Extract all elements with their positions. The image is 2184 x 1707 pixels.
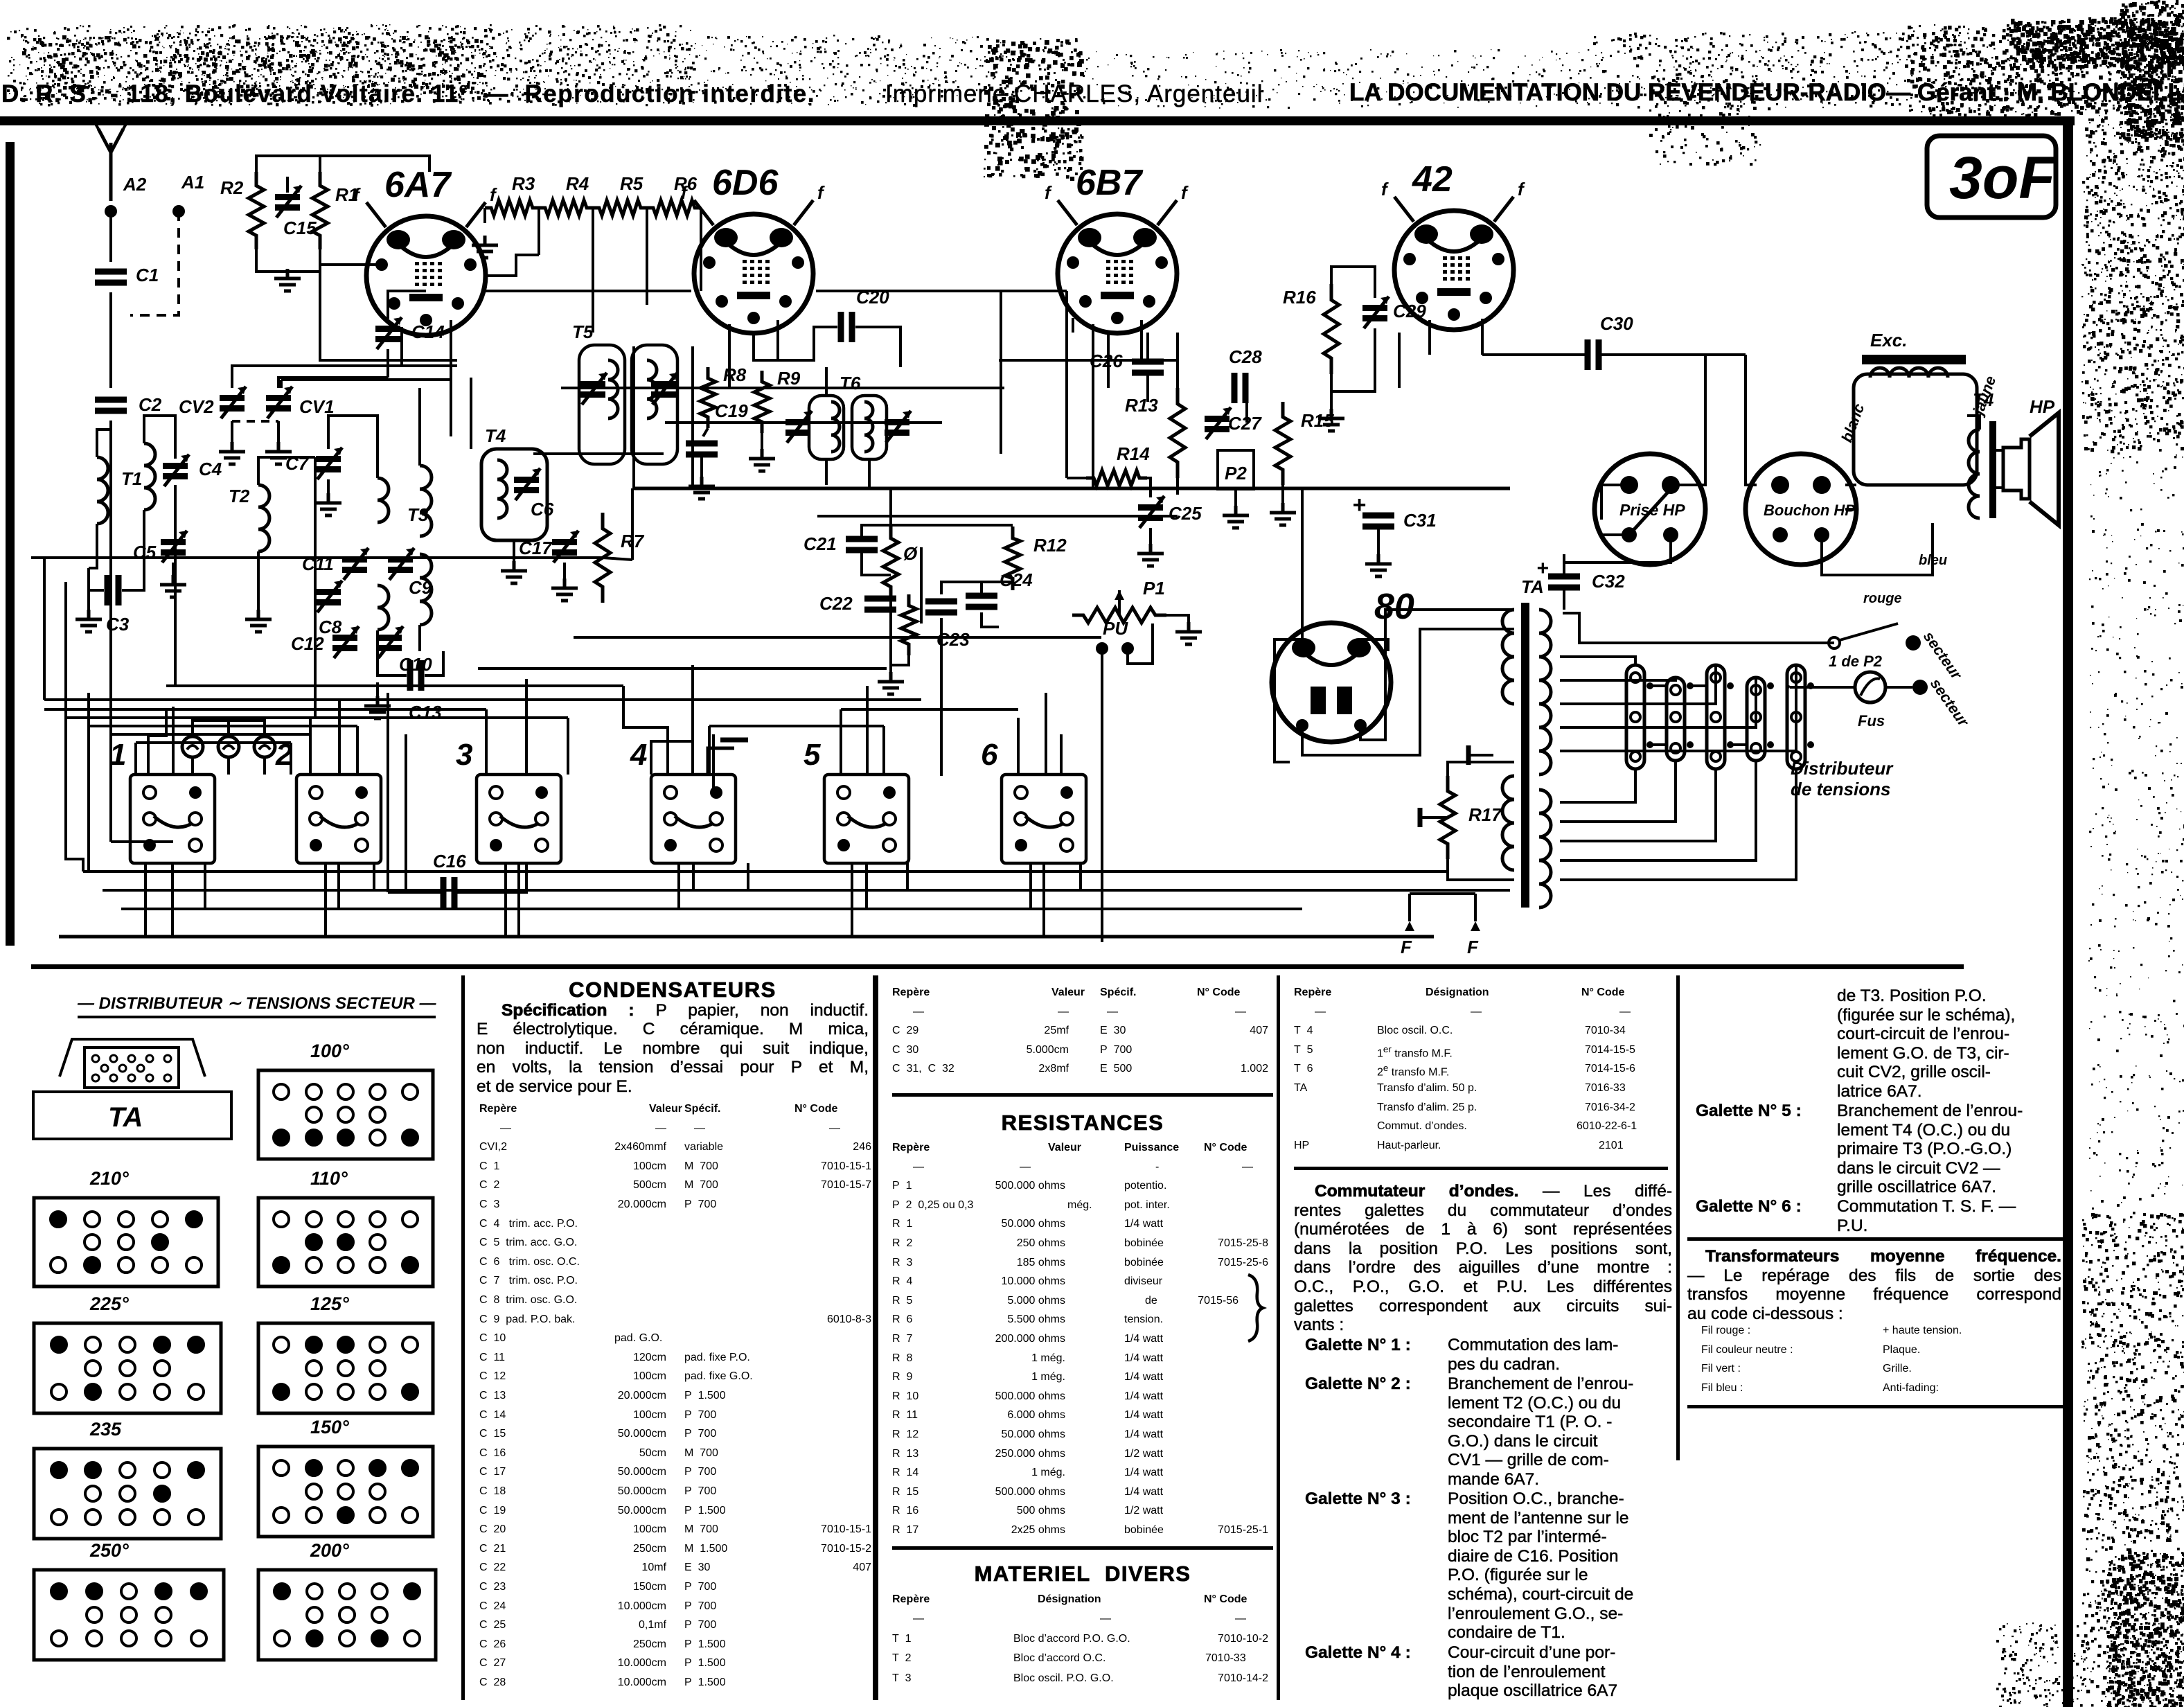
wire ladder taps xyxy=(538,208,540,255)
wire C20 net xyxy=(754,327,837,360)
resistor R9 xyxy=(754,371,770,433)
wire A1 dashed xyxy=(130,211,179,315)
voltage plug label 235 xyxy=(90,1419,121,1440)
svg-text:R12: R12 xyxy=(1033,535,1067,556)
svg-text:f: f xyxy=(817,182,825,203)
RESISTANCES heading xyxy=(892,1113,1273,1133)
title distributeur tensions secteur xyxy=(78,993,436,1018)
svg-text:R5: R5 xyxy=(620,173,643,194)
left schematic border xyxy=(6,142,15,946)
socket Bouchon HP xyxy=(1746,454,1856,565)
svg-text:+: + xyxy=(1352,492,1366,518)
svg-text:R15: R15 xyxy=(1301,410,1334,431)
switch galette 3 xyxy=(477,775,561,863)
svg-text:T1: T1 xyxy=(121,468,142,489)
wire left cluster verticals xyxy=(174,524,177,686)
galette 1 xyxy=(1305,1336,1672,1355)
svg-text:C24: C24 xyxy=(1000,569,1033,590)
svg-text:C19: C19 xyxy=(715,400,748,421)
wire 6A7 left pin xyxy=(428,156,431,172)
wire bouchon to T4 xyxy=(1845,508,1856,511)
svg-text:42: 42 xyxy=(1412,159,1453,200)
main horizontal separator xyxy=(31,964,1964,969)
svg-text:R6: R6 xyxy=(674,173,698,194)
scan speckle noise top band xyxy=(7,17,2184,181)
wire antenna down xyxy=(109,211,112,262)
resistor R11 xyxy=(901,594,916,655)
svg-text:R3: R3 xyxy=(512,173,535,194)
column rule 1 xyxy=(461,975,465,1700)
svg-text:f: f xyxy=(1181,182,1189,203)
capacitor C26 xyxy=(1132,362,1164,373)
svg-text:Fus: Fus xyxy=(1858,712,1885,729)
ground R15 xyxy=(1281,485,1284,503)
svg-text:secteur: secteur xyxy=(1927,675,1973,731)
svg-text:R1: R1 xyxy=(335,184,358,205)
wire R8 to C19 xyxy=(703,428,708,436)
wire long mid buses xyxy=(574,636,1101,639)
trimmer C17 xyxy=(552,539,577,545)
terminals PU xyxy=(1096,642,1108,655)
trimmer C9 xyxy=(388,556,413,563)
wire C30 line xyxy=(1482,353,1587,356)
continuation text column E xyxy=(1837,987,2066,1102)
svg-text:C31: C31 xyxy=(1403,510,1437,531)
svg-text:A1: A1 xyxy=(181,172,204,193)
resistor R14 xyxy=(1086,470,1147,486)
price box 30F xyxy=(1927,136,2056,218)
ground C17 xyxy=(563,563,566,578)
TA connector drawing xyxy=(32,1032,233,1171)
wire detector net xyxy=(891,524,1013,527)
column rule 3 xyxy=(1277,975,1280,1700)
rule col E xyxy=(1687,1237,2066,1241)
terminal A2 xyxy=(105,205,117,218)
wire C21 R10 xyxy=(862,525,891,536)
ground C13 xyxy=(376,682,379,696)
ground C7 xyxy=(327,479,330,493)
svg-text:6D6: 6D6 xyxy=(712,163,779,203)
TA primary coil upper xyxy=(1502,610,1514,704)
transformer T6 box left xyxy=(809,396,844,459)
capacitor C16 xyxy=(443,877,454,908)
svg-text:T6: T6 xyxy=(840,373,861,393)
ground P1 xyxy=(1166,615,1189,622)
tube 6A7 xyxy=(353,184,497,335)
table T4..HP xyxy=(1294,987,1710,1006)
wire galette bottom drops xyxy=(171,863,174,937)
svg-text:bleu: bleu xyxy=(1919,553,1947,568)
P1 wiper xyxy=(1118,590,1121,615)
svg-text:C14: C14 xyxy=(411,321,445,342)
svg-text:TA: TA xyxy=(108,1102,143,1133)
svg-text:R9: R9 xyxy=(777,368,801,389)
T5 coil left xyxy=(608,360,618,418)
fuse xyxy=(1855,672,1885,702)
bus wires horizontal xyxy=(383,359,457,362)
T6 trimmer left xyxy=(785,419,810,425)
wire down to T1 xyxy=(109,421,112,842)
voltage plug label 110&#176; xyxy=(310,1168,348,1189)
svg-text:C30: C30 xyxy=(1600,313,1633,334)
capacitor C5 trimmer xyxy=(161,539,186,545)
svg-text:F: F xyxy=(1401,937,1412,957)
svg-text:secteur: secteur xyxy=(1920,628,1966,684)
svg-text:HP: HP xyxy=(2030,396,2055,417)
wire 80 to TA xyxy=(1302,629,1514,755)
header imprint left xyxy=(1,80,815,108)
column rule 2 xyxy=(873,975,878,1700)
block T4 xyxy=(481,449,547,540)
wire C16 xyxy=(388,891,443,894)
table C29-C32 xyxy=(892,987,1308,1006)
voltage plug label 100&#176; xyxy=(310,1041,349,1062)
wire C32 xyxy=(1563,554,1565,574)
resistor R5 xyxy=(593,200,647,215)
voltage plug label 250&#176; xyxy=(90,1540,129,1562)
field coil box xyxy=(1854,374,1977,485)
svg-text:R2: R2 xyxy=(220,177,244,198)
variable capacitor CV1 xyxy=(266,395,291,401)
svg-text:6: 6 xyxy=(981,738,998,772)
wire HP xyxy=(1996,449,2003,452)
coil T3 lower xyxy=(378,585,389,630)
transformateurs MF paragraph xyxy=(1687,1247,2061,1323)
capacitor C28 xyxy=(1234,373,1245,403)
svg-text:3oF: 3oF xyxy=(1949,145,2057,211)
svg-text:C32: C32 xyxy=(1592,571,1625,592)
transformer T1 secondary xyxy=(144,443,155,510)
resistor R12 xyxy=(1005,527,1020,590)
voltage plug box 100&#176; xyxy=(256,1068,435,1161)
output transformer T4 HP xyxy=(1969,430,1980,518)
trimmer C25 xyxy=(1138,504,1163,511)
svg-text:PU: PU xyxy=(1103,618,1128,639)
antenna xyxy=(98,129,123,201)
terminal A1 xyxy=(172,205,185,218)
tube 42 xyxy=(1381,179,1525,330)
svg-text:P2: P2 xyxy=(1225,463,1247,484)
TA primary coil lower xyxy=(1502,776,1514,870)
wire tube bottom drops xyxy=(400,327,403,366)
svg-text:C7: C7 xyxy=(285,453,310,474)
svg-text:R4: R4 xyxy=(566,173,589,194)
voltage plug label 225&#176; xyxy=(90,1293,129,1315)
oscillator coil xyxy=(420,466,432,536)
speaker HP xyxy=(2003,439,2030,499)
capacitor C13 xyxy=(410,660,421,691)
capacitor C22 xyxy=(864,599,896,610)
svg-text:Bouchon HP: Bouchon HP xyxy=(1764,502,1855,519)
trimmer C7 xyxy=(316,456,341,462)
header title right xyxy=(1349,79,2184,107)
svg-text:blanc: blanc xyxy=(1838,401,1867,445)
resistor R16 xyxy=(1324,284,1339,374)
wire TA secondary to distributor xyxy=(1560,657,1635,665)
capacitor C14 xyxy=(375,326,400,332)
brace diviseur xyxy=(1245,1273,1273,1343)
T6 trimmer right xyxy=(885,419,909,425)
paragraph commutateur xyxy=(1294,1182,1672,1335)
capacitor C3 xyxy=(88,580,89,581)
scan speckle noise right band xyxy=(1996,0,2184,1707)
svg-text:C12: C12 xyxy=(291,633,324,654)
ground C31 xyxy=(1377,529,1380,554)
TA center tap xyxy=(1468,754,1493,757)
T6 coil right xyxy=(864,402,873,452)
svg-text:C15: C15 xyxy=(283,218,317,238)
resistor R4 xyxy=(539,200,593,215)
right page border xyxy=(2063,116,2073,1707)
wire lamps xyxy=(193,720,229,736)
svg-text:C2: C2 xyxy=(139,394,162,415)
svg-text:f: f xyxy=(1045,182,1052,203)
capacitor C8 trimmer xyxy=(316,589,341,595)
wire 6A7 to ladder xyxy=(486,255,539,276)
wire fuse xyxy=(1885,686,1912,689)
dial lamps xyxy=(182,736,203,757)
wire galette feeds xyxy=(172,707,175,775)
potentiometer P2 xyxy=(1218,450,1254,489)
voltage plug box 150&#176; xyxy=(256,1444,435,1539)
T4 trimmer xyxy=(514,477,539,483)
svg-text:R17: R17 xyxy=(1468,804,1502,825)
wire cluster feed xyxy=(889,488,892,525)
svg-text:Prise HP: Prise HP xyxy=(1619,501,1685,519)
capacitor C32 electrolytic xyxy=(1548,576,1580,587)
svg-text:C22: C22 xyxy=(819,593,853,614)
voltage plug box 200&#176; xyxy=(256,1568,438,1662)
ground C25 xyxy=(1149,528,1152,544)
wire switch to TA xyxy=(1563,613,1834,643)
svg-text:R16: R16 xyxy=(1283,287,1316,308)
trimmer C29 xyxy=(1362,305,1387,311)
TA secondary coil xyxy=(1539,610,1551,775)
svg-text:C10: C10 xyxy=(399,654,432,675)
voltage plug label 210&#176; xyxy=(90,1168,129,1189)
switch galette 4 xyxy=(651,775,736,863)
resistor R17 xyxy=(1440,776,1455,859)
bus verticals mid xyxy=(632,346,635,488)
wire strips crossbars xyxy=(1650,684,1667,687)
ground C5 xyxy=(172,563,175,575)
MATERIEL DIVERS heading xyxy=(892,1564,1273,1584)
voltage plug box 235 xyxy=(32,1447,223,1541)
socket Prise HP xyxy=(1595,454,1705,565)
svg-text:R14: R14 xyxy=(1117,443,1150,464)
ground detector xyxy=(878,672,904,694)
tube 6B7 xyxy=(1045,182,1189,333)
voltage plug box 250&#176; xyxy=(32,1568,226,1662)
svg-text:C1: C1 xyxy=(136,265,159,285)
svg-text:C16: C16 xyxy=(433,851,466,872)
svg-text:A2: A2 xyxy=(123,174,147,195)
capacitor C2 xyxy=(95,400,127,411)
switch 1 de P2 xyxy=(1829,637,1840,648)
transformer T5 box left xyxy=(579,345,625,464)
capacitor C1 xyxy=(95,272,127,283)
resistor R7 xyxy=(595,513,610,603)
trimmer C11 xyxy=(342,556,367,563)
T5 coil right xyxy=(647,360,657,418)
transformer T6 box right xyxy=(852,396,887,459)
ground C19 xyxy=(700,457,703,477)
distributor strips xyxy=(1626,665,1644,769)
switch galette 6 xyxy=(1002,775,1086,863)
transformer TA core xyxy=(1521,603,1529,908)
coil T3 upper xyxy=(378,478,389,522)
svg-text:3: 3 xyxy=(456,738,472,772)
wire T2 xyxy=(258,457,315,485)
svg-text:C25: C25 xyxy=(1169,503,1202,524)
tube 80 rectifier xyxy=(1272,623,1391,742)
bus horizontals left mid xyxy=(44,708,486,711)
galette 4 xyxy=(1305,1643,1672,1663)
svg-text:P1: P1 xyxy=(1143,578,1165,599)
resistor R3 xyxy=(485,200,539,215)
rule col E bottom xyxy=(1687,1405,2066,1408)
wire R16 C29 xyxy=(1331,267,1375,298)
T5 trimmer right xyxy=(651,381,676,387)
voltage plug label 125&#176; xyxy=(310,1293,349,1315)
fil rows xyxy=(1687,1325,2103,1344)
switch 4 top tee xyxy=(708,748,734,775)
svg-text:T4: T4 xyxy=(1973,389,1994,410)
condensateur value rows xyxy=(479,1103,895,1122)
resistor R2 xyxy=(249,172,264,249)
svg-text:CV2: CV2 xyxy=(179,396,214,417)
capacitor C20 xyxy=(841,312,852,342)
voltage plug box 110&#176; xyxy=(256,1196,435,1289)
svg-text:6A7: 6A7 xyxy=(384,165,452,205)
svg-text:Exc.: Exc. xyxy=(1870,330,1908,351)
resistor R13 xyxy=(1170,388,1185,478)
svg-text:1 de P2: 1 de P2 xyxy=(1829,653,1883,670)
header imprimerie xyxy=(885,80,1263,108)
wire CV feed xyxy=(232,366,457,388)
svg-text:T5: T5 xyxy=(572,321,594,342)
capacitor C19 xyxy=(686,443,718,454)
trimmer C27 xyxy=(1205,416,1229,422)
voltage plug box 125&#176; xyxy=(256,1321,435,1415)
rule under C32 xyxy=(892,1093,1273,1097)
svg-text:R8: R8 xyxy=(723,364,747,385)
trimmer C12 xyxy=(332,635,357,641)
coil T2 xyxy=(258,485,269,551)
voltage plug label 200&#176; xyxy=(310,1540,349,1562)
wire C26 xyxy=(1146,333,1149,359)
transformer T5 box right xyxy=(632,345,677,464)
voltage plug box 225&#176; xyxy=(32,1321,223,1415)
svg-text:6B7: 6B7 xyxy=(1076,163,1143,203)
ground C15 xyxy=(274,269,301,291)
galette 3 xyxy=(1305,1489,1672,1509)
voltage plug box 210&#176; xyxy=(32,1196,220,1289)
svg-text:T2: T2 xyxy=(229,486,250,506)
T4 coil xyxy=(497,460,507,518)
svg-text:f: f xyxy=(1381,179,1389,200)
table CONDENSATEURS xyxy=(477,980,869,1097)
svg-text:4: 4 xyxy=(630,738,647,772)
trimmer C15 xyxy=(275,194,300,200)
capacitor C21 xyxy=(846,539,878,550)
svg-text:C29: C29 xyxy=(1393,301,1426,321)
rule under HP xyxy=(1294,1167,1668,1170)
galette 2 xyxy=(1305,1374,1672,1394)
wire T1 xyxy=(97,430,111,457)
wire prise HP xyxy=(1671,355,1705,485)
wire R17 xyxy=(1448,762,1514,776)
ground T1 xyxy=(87,590,90,610)
svg-text:TA: TA xyxy=(1521,576,1544,597)
svg-text:F: F xyxy=(1467,937,1479,957)
resistor R15 xyxy=(1275,402,1290,485)
svg-text:80: 80 xyxy=(1374,587,1414,627)
wire T1 sec xyxy=(144,416,175,459)
wire R14 net xyxy=(1067,477,1090,479)
ground CV1 xyxy=(277,421,280,442)
T5 trimmer left xyxy=(580,381,605,387)
svg-text:R13: R13 xyxy=(1125,395,1158,416)
svg-text:C13: C13 xyxy=(409,702,442,723)
resistor R1 xyxy=(312,172,328,249)
switch galette 5 xyxy=(824,775,909,863)
resistor R6 xyxy=(647,200,701,215)
trimmer C10 xyxy=(377,635,402,641)
wire osc coil xyxy=(418,388,421,466)
wire C14 xyxy=(388,291,426,319)
svg-text:Distributeur: Distributeur xyxy=(1791,758,1894,779)
wire T3 net xyxy=(328,416,378,478)
svg-text:Ø: Ø xyxy=(903,543,918,564)
switch galette 2 xyxy=(296,775,381,863)
terminal secteur right xyxy=(1912,680,1928,695)
header rule xyxy=(0,116,2075,125)
resistor R10 xyxy=(883,525,898,600)
wire CV stators dashed xyxy=(232,420,278,423)
bus horizontals left mid extra xyxy=(136,741,291,744)
svg-text:f: f xyxy=(1518,179,1525,200)
column rule 4 xyxy=(1676,975,1680,1460)
bus wires left nested xyxy=(43,558,46,700)
svg-text:C27: C27 xyxy=(1228,413,1262,434)
ground T4 xyxy=(513,540,515,561)
svg-text:C4: C4 xyxy=(199,459,222,479)
resistor R8 xyxy=(700,367,716,428)
TA secondary coil lower xyxy=(1539,790,1551,908)
ground CV2 xyxy=(231,421,233,442)
T6 coil left xyxy=(831,402,840,452)
galette 6 xyxy=(1696,1197,2063,1217)
R17 tap xyxy=(1420,816,1448,819)
capacitor C24 xyxy=(966,596,997,607)
switch galette 1 xyxy=(130,775,215,863)
rule under R17 xyxy=(892,1546,1273,1550)
svg-text:T4: T4 xyxy=(485,425,506,446)
svg-text:C28: C28 xyxy=(1229,346,1262,367)
svg-text:5: 5 xyxy=(804,738,821,772)
ground R3 left xyxy=(483,208,486,223)
capacitor C30 xyxy=(1588,339,1599,370)
resistance rows xyxy=(892,1142,1308,1161)
wire CV loop xyxy=(281,380,451,436)
transformer T1 primary xyxy=(97,457,108,524)
tube 6D6 xyxy=(681,182,825,333)
wire F terminals xyxy=(1408,894,1411,921)
wire top bias bus xyxy=(256,156,429,172)
capacitor C4 trimmer xyxy=(163,463,188,469)
variable capacitor CV2 xyxy=(220,395,245,401)
